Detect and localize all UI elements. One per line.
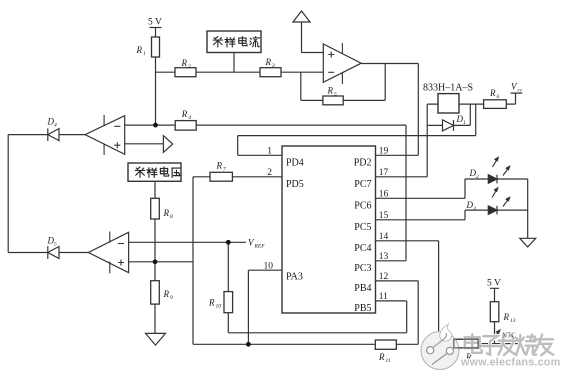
svg-text:2: 2 [188,64,191,70]
svg-text:14: 14 [379,232,389,242]
svg-text:11: 11 [379,292,388,302]
svg-text:5: 5 [334,92,337,98]
svg-text:10: 10 [264,261,274,271]
svg-text:4: 4 [188,114,191,121]
svg-text:2: 2 [476,174,479,180]
svg-text:cc: cc [518,88,523,94]
svg-text:R: R [208,298,215,308]
svg-text:R: R [327,86,334,96]
svg-text:11: 11 [386,358,391,364]
svg-text:www.elecfans.com: www.elecfans.com [460,357,560,369]
svg-text:10: 10 [216,304,222,310]
svg-text:16: 16 [379,190,389,200]
svg-text:R: R [216,161,223,171]
svg-text:5 V: 5 V [487,279,501,289]
svg-text:19: 19 [379,147,389,157]
svg-text:REF: REF [254,244,266,250]
svg-text:PD5: PD5 [286,179,304,190]
svg-text:R: R [181,109,188,119]
svg-text:13: 13 [510,318,516,324]
svg-text:R: R [163,208,170,218]
svg-text:15: 15 [379,211,389,221]
svg-text:R: R [378,352,385,362]
svg-text:1: 1 [463,120,466,126]
svg-text:7: 7 [223,167,226,173]
svg-text:R: R [163,289,170,299]
svg-text:PD2: PD2 [354,158,372,169]
svg-text:1: 1 [143,51,146,57]
svg-text:PA3: PA3 [286,272,303,283]
svg-text:PD4: PD4 [286,158,304,169]
svg-text:R: R [265,57,272,67]
svg-text:6: 6 [497,94,500,100]
svg-text:PC7: PC7 [354,179,371,190]
svg-text:R: R [489,88,496,98]
svg-text:13: 13 [379,252,389,262]
svg-text:8: 8 [170,214,173,220]
svg-text:R: R [181,58,188,68]
svg-text:9: 9 [170,295,173,301]
svg-text:PC6: PC6 [354,201,371,212]
svg-text:5: 5 [54,242,57,248]
svg-text:5 V: 5 V [148,18,162,28]
svg-text:PB5: PB5 [354,303,371,314]
svg-text:R: R [136,45,143,55]
svg-text:PC4: PC4 [354,243,371,254]
svg-text:PB4: PB4 [354,283,371,294]
svg-text:833H–1A–S: 833H–1A–S [423,83,473,94]
svg-text:1: 1 [267,147,272,157]
svg-text:NTC: NTC [502,332,516,340]
svg-text:17: 17 [379,168,389,178]
svg-text:R: R [503,312,510,322]
svg-text:3: 3 [472,206,476,212]
svg-text:2: 2 [267,168,272,178]
svg-text:12: 12 [379,272,389,282]
svg-text:3: 3 [271,63,275,69]
svg-text:4: 4 [54,122,57,129]
svg-text:PC5: PC5 [354,222,371,233]
svg-text:PC3: PC3 [354,263,371,274]
